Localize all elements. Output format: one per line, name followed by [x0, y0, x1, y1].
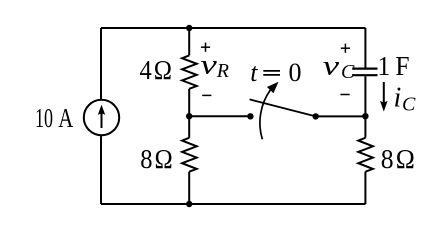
capacitor C1 bottom plate [352, 74, 377, 76]
node junction dot bottom [186, 201, 192, 207]
switch SW1 right contact dot [313, 113, 319, 119]
svg-text:C: C [402, 93, 416, 115]
label vR minus sign [202, 94, 211, 96]
svg-text:8 Ω: 8 Ω [140, 144, 173, 174]
svg-text:C: C [341, 61, 355, 83]
label t = 0 [250, 58, 301, 87]
wire top rail [101, 27, 365, 29]
wire bottom rail [101, 203, 365, 205]
svg-text:v: v [201, 50, 217, 80]
svg-text:A: A [58, 103, 73, 133]
node junction dot top [186, 25, 192, 31]
current iC arrow [380, 82, 388, 112]
wire right branch middle (capacitor to resistor) [364, 76, 366, 138]
current source I1 circle [84, 100, 119, 135]
wire middle branch top (top rail to 4 ohm) [188, 28, 190, 55]
svg-text:1 F: 1 F [378, 51, 410, 81]
label vR plus sign [201, 43, 210, 52]
wire left branch [100, 28, 102, 204]
label vC [323, 50, 355, 83]
wire middle branch bottom [188, 172, 190, 204]
svg-text:R: R [216, 60, 229, 82]
wire middle rail right (switch to right branch) [316, 115, 366, 117]
label iC [394, 82, 417, 115]
svg-text:4 Ω: 4 Ω [140, 55, 173, 85]
label vC minus sign [340, 94, 349, 96]
label vR [201, 50, 230, 82]
label vC plus sign [341, 44, 350, 53]
node junction dot middle-left [186, 113, 192, 119]
svg-text:8 Ω: 8 Ω [381, 144, 415, 174]
switch SW1 motion arc arrow [260, 82, 279, 140]
node junction dot right [362, 113, 368, 119]
current source I1 arrow [98, 105, 105, 128]
svg-text:10: 10 [35, 103, 53, 133]
wire middle rail left (node to switch) [189, 115, 250, 117]
svg-text:0: 0 [289, 58, 302, 87]
svg-text:t: t [250, 58, 258, 87]
resistor R3 8ohm right [358, 138, 373, 172]
switch SW1 blade [250, 99, 316, 116]
resistor R1 4ohm [182, 55, 197, 88]
capacitor C1 top plate [352, 67, 377, 69]
resistor R2 8ohm left [182, 138, 197, 172]
wire right branch bottom [364, 172, 366, 204]
svg-text:v: v [323, 50, 339, 80]
wire right branch top (to capacitor) [364, 28, 366, 68]
switch SW1 left contact dot [247, 113, 253, 119]
svg-text:i: i [394, 82, 402, 113]
wire middle branch between resistors [188, 89, 190, 138]
